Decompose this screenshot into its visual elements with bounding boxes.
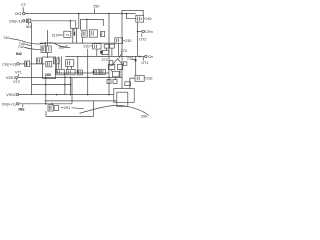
block next stage rect outer <box>114 89 134 103</box>
wire vertical x45.8 <box>45 77 47 103</box>
wire VSS1 bus <box>18 76 122 78</box>
svg-text:740: 740 <box>3 36 9 40</box>
transistor T17 <box>48 105 59 111</box>
svg-text:OT2: OT2 <box>139 38 146 42</box>
svg-text:CR(n+1): CR(n+1) <box>2 102 16 106</box>
svg-text:VSS2: VSS2 <box>6 93 15 97</box>
wire left vertical <box>31 23 33 95</box>
svg-text:IN2: IN2 <box>16 51 23 56</box>
wire low-mid bus <box>32 84 70 86</box>
transistor T2 <box>77 70 82 75</box>
transistor T7 <box>89 30 97 37</box>
label 230 <box>123 39 131 43</box>
transistor T1 <box>93 44 101 49</box>
wire T4 channel leads <box>72 28 74 43</box>
transistor left of 270 <box>100 50 109 54</box>
transistor T10b <box>66 69 75 74</box>
transistor T11 input pad IN1 <box>26 19 32 29</box>
label VT2 <box>13 79 20 84</box>
node CR stub junction <box>137 31 139 33</box>
terminal Gn output <box>145 55 153 59</box>
wire from CK to T4 cluster <box>78 14 80 29</box>
transistor T4 channel bar <box>74 32 75 36</box>
svg-text:240: 240 <box>145 17 151 21</box>
terminal VSS1 <box>6 76 18 80</box>
wire T9 source leads <box>67 66 69 69</box>
transistor 292 block <box>135 75 144 81</box>
svg-text:292: 292 <box>146 76 152 80</box>
svg-text:CRn: CRn <box>145 30 152 34</box>
svg-text:IN2: IN2 <box>19 107 26 112</box>
label 210 <box>52 33 63 37</box>
transistor T6b <box>93 69 99 74</box>
svg-text:250: 250 <box>93 4 99 8</box>
wire node-B horizontal <box>45 100 94 102</box>
svg-text:220: 220 <box>83 45 89 49</box>
transistor T8 <box>46 61 52 66</box>
node junction dots on CK bus <box>78 13 80 15</box>
svg-text:280: 280 <box>45 72 52 77</box>
svg-text:IN1: IN1 <box>26 25 32 29</box>
wire vertical x122 <box>121 14 123 89</box>
label VT1 <box>15 71 22 77</box>
transistor T10 small box <box>125 82 131 86</box>
transistor T4 <box>64 31 71 37</box>
wire vertical x64.9 <box>64 73 66 95</box>
transistor under caret right <box>123 62 127 66</box>
transistor bottom small pair <box>107 80 117 84</box>
wire right main vertical lower <box>135 56 137 75</box>
wire gate drop T10 <box>77 56 79 73</box>
svg-text:CK1: CK1 <box>15 12 22 16</box>
transistor T12 <box>82 30 87 37</box>
wire CR(n+1) line <box>19 103 72 105</box>
wire vertical pair x70 <box>69 77 71 94</box>
label 260 <box>58 46 67 50</box>
svg-text:291: 291 <box>64 106 70 110</box>
wire VSS2 bus <box>19 94 114 96</box>
transistor 240 block <box>136 15 144 22</box>
terminal CR(n+1) <box>2 102 19 106</box>
wire CK bus <box>25 13 136 15</box>
node CT label <box>21 3 27 12</box>
label 270 with leaders <box>112 49 127 65</box>
wire T12 drain drop <box>82 38 84 44</box>
label OT2 <box>139 33 146 41</box>
transistor 230 block <box>115 38 123 44</box>
svg-text:260: 260 <box>58 46 64 50</box>
transistor group 271 <box>108 64 123 77</box>
wire gate drop left pair <box>58 56 60 69</box>
label 740 <box>3 36 22 41</box>
svg-text:CR(n-1): CR(n-1) <box>9 19 22 23</box>
wire center-left vertical <box>47 30 49 46</box>
svg-text:VT2: VT2 <box>13 80 20 84</box>
transistor under caret left <box>109 61 113 66</box>
svg-text:CK(n+2): CK(n+2) <box>2 62 16 66</box>
wire CK(n+2) line <box>30 63 45 65</box>
terminal VSS2 <box>6 93 18 97</box>
label 220 <box>83 45 92 49</box>
block next stage rect inner <box>117 92 128 106</box>
svg-text:CT: CT <box>21 3 27 7</box>
svg-text:271: 271 <box>127 57 133 61</box>
wire 271 group drops <box>111 70 113 72</box>
wire vertical x109 CK feed <box>108 14 110 95</box>
transistor pair right-mid <box>104 44 114 48</box>
label 745 <box>19 42 32 46</box>
label 240 <box>144 17 152 21</box>
node dots on VSS1 <box>45 77 47 79</box>
wire G output bus <box>65 55 144 57</box>
svg-text:270: 270 <box>121 49 127 53</box>
wire T1 drain drop <box>96 49 98 56</box>
wire mid bus <box>40 42 115 44</box>
svg-text:230: 230 <box>125 39 131 43</box>
label 742 <box>18 45 31 49</box>
svg-text:OT1: OT1 <box>141 61 148 65</box>
wire 292 to vertical <box>130 78 135 88</box>
svg-text:272: 272 <box>102 58 108 62</box>
wire CR(n-1) line <box>31 21 76 29</box>
svg-text:290: 290 <box>141 115 147 119</box>
terminal CK1 <box>15 12 25 16</box>
transistor T7b <box>100 69 105 74</box>
wire right main vertical upper <box>137 22 139 56</box>
svg-text:210: 210 <box>52 33 58 37</box>
wire long leader curve <box>79 105 149 115</box>
label IN2 bottom <box>19 104 26 111</box>
transistor input pad dark <box>19 61 30 67</box>
wire stub from 271 group <box>131 58 136 60</box>
terminal CRn output <box>138 30 153 34</box>
label OT1 <box>141 57 148 65</box>
wire 740 net curves <box>22 41 70 48</box>
label 291 <box>61 106 84 110</box>
wire 230 source drop <box>118 44 120 57</box>
svg-text:VT1: VT1 <box>15 71 22 75</box>
wire bottom U route <box>46 101 117 117</box>
svg-text:Gn: Gn <box>148 55 153 59</box>
wire gate lead of 240 <box>127 14 136 19</box>
wire pair drops <box>106 48 108 50</box>
transistor T9 <box>56 69 65 74</box>
transistor upper middle <box>65 60 73 67</box>
wire mid lower bus <box>56 72 109 74</box>
wire vertical x87.7 <box>87 49 89 95</box>
wire upper bus with corners <box>81 19 104 30</box>
svg-text:T4: T4 <box>66 33 70 37</box>
node junction pad on output net <box>135 59 137 61</box>
label 292 <box>145 76 153 80</box>
transistor T5 T6 pair <box>41 42 51 52</box>
block 280 outline <box>43 57 56 79</box>
terminal CR(n-1) <box>9 19 25 23</box>
transistor T15 small <box>101 32 105 37</box>
svg-text:742: 742 <box>18 45 24 49</box>
transistor T3 <box>36 58 41 64</box>
terminal CK(n+2) <box>2 62 19 66</box>
wire top-right jog <box>122 10 143 15</box>
label 250 <box>93 4 99 13</box>
transistor T12b <box>53 58 59 64</box>
